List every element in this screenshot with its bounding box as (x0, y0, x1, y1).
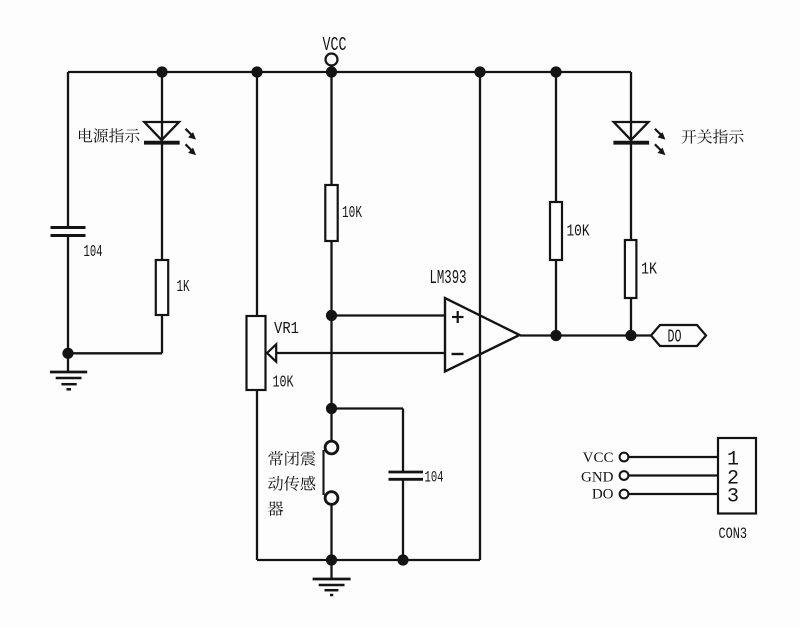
junction rail / R2 (326, 66, 337, 77)
pin terminal VCC (620, 453, 629, 462)
resistor R4 1K (625, 240, 637, 298)
pin terminal DO (620, 490, 629, 499)
svg-text:VCC: VCC (323, 34, 347, 56)
pin terminal GND (620, 471, 629, 480)
svg-text:104: 104 (425, 469, 444, 487)
junction rail / LED D1 (156, 66, 167, 77)
wire rail through LED D2 (630, 72, 632, 240)
capacitor C2 104 (389, 472, 424, 479)
op-amp U1 LM393 (445, 298, 520, 372)
wire R4 to output (630, 298, 632, 336)
wire rail to VR1 (256, 72, 258, 316)
wire sensor node to C2 (332, 407, 404, 409)
vibration sensor SW1 (normally closed) (324, 441, 338, 504)
ground GND2 (313, 560, 351, 595)
wire C2 top (402, 409, 404, 472)
junction R2 / + input / sensor (326, 310, 337, 321)
junction rail / R3 (550, 66, 561, 77)
svg-text:1K: 1K (177, 278, 191, 297)
wire R2 to non-inverting node (330, 241, 332, 316)
wire wiper to inverting input (276, 352, 445, 354)
wire VCC to CON3 pin1 (628, 456, 718, 458)
wire VCC top rail (68, 71, 631, 73)
svg-text:10K: 10K (567, 223, 591, 242)
label 电源指示 (power indicator) (79, 128, 140, 143)
label 常闭震动传感器 line1 常闭震 (268, 451, 315, 466)
junction sensor / C2 (326, 403, 337, 414)
wire C2 bottom (402, 481, 404, 561)
junction C1 / R1 / ground (62, 348, 73, 359)
wire VR1 bottom to bottom rail (256, 390, 258, 560)
label line2 动传感 (268, 476, 315, 491)
svg-text:10K: 10K (342, 204, 363, 223)
svg-text:VCC: VCC (583, 450, 614, 466)
resistor R3 10K (550, 202, 562, 260)
wire GND to CON3 pin2 (628, 474, 718, 476)
resistor R2 10K (325, 185, 337, 241)
power terminal VCC (326, 54, 338, 66)
wire node to sensor node (330, 316, 332, 409)
junction output / R3 (550, 330, 561, 341)
net flag DO (651, 325, 706, 346)
label 开关指示 (switch indicator) (682, 129, 744, 143)
junction sensor / bottom rail / ground (326, 554, 337, 565)
LED D1 (power) (144, 122, 196, 155)
svg-text:GND: GND (581, 469, 614, 485)
junction output / R4 (625, 330, 636, 341)
wire node to sensor top (330, 409, 332, 442)
ground GND1 (50, 353, 87, 389)
wire R1 to ground wire (161, 315, 163, 353)
junction rail / VR1 (251, 66, 262, 77)
svg-text:1K: 1K (641, 261, 658, 280)
junction rail / op-amp supply (474, 66, 485, 77)
svg-text:DO: DO (668, 328, 682, 348)
svg-text:10K: 10K (273, 374, 295, 393)
junction C2 / bottom rail (397, 554, 408, 565)
wire rail to C1 (67, 72, 69, 227)
potentiometer VR1 body (247, 316, 266, 390)
wire ground node to R1 (68, 352, 162, 354)
svg-text:VR1: VR1 (274, 320, 299, 339)
connector CON3 body (718, 438, 756, 514)
svg-text:LM393: LM393 (430, 267, 467, 289)
wire to non-inverting input (332, 314, 446, 316)
wire op-amp supply column (479, 72, 481, 560)
VR1 wiper arrow (267, 344, 276, 361)
capacitor C1 104 (51, 228, 86, 236)
svg-text:DO: DO (592, 487, 614, 503)
wire R3 to output (555, 260, 557, 336)
label line3 器 (268, 501, 283, 516)
wire DO to CON3 pin3 (628, 493, 718, 495)
svg-text:3: 3 (727, 486, 739, 509)
wire rail through LED D1 (161, 72, 163, 260)
svg-text:104: 104 (84, 243, 103, 262)
wire C1 to ground node (67, 237, 69, 354)
wire op-amp output (520, 334, 651, 336)
wire rail to R2 (330, 72, 332, 185)
wire sensor bottom to ground (330, 504, 332, 560)
wire bottom rail (257, 559, 480, 561)
svg-text:CON3: CON3 (719, 525, 748, 543)
wire rail to R3 (555, 72, 557, 202)
LED D2 (switch indicator) (613, 122, 665, 155)
resistor R1 1K (156, 260, 168, 315)
